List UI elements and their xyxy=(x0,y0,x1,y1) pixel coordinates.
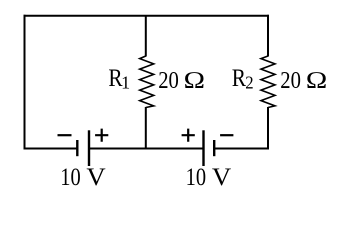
battery B1 tall plate (positive) xyxy=(88,130,90,166)
resistor R2 zigzag xyxy=(261,56,275,108)
svg-text:V: V xyxy=(212,163,232,191)
minus sign of battery B1 xyxy=(58,134,72,136)
plus sign of battery B2 xyxy=(182,129,195,142)
battery B1 short plate (negative) xyxy=(76,140,78,156)
battery B2 tall plate (positive) xyxy=(202,130,204,166)
wire: bottom edge left segment (left corner to battery 1) xyxy=(24,148,78,150)
svg-text:10: 10 xyxy=(60,163,80,190)
svg-text:Ω: Ω xyxy=(306,66,328,93)
wire: outer loop right edge top (to resistor R2) xyxy=(267,15,269,57)
wire: bottom edge right segment (battery 2 to right corner) xyxy=(214,148,269,150)
wire: bottom edge middle segment (battery 1 to battery 2) xyxy=(89,148,204,150)
resistor R1 zigzag xyxy=(140,56,154,108)
wire: outer loop left edge xyxy=(24,15,26,150)
svg-text:R: R xyxy=(232,64,247,92)
plus sign of battery B1 xyxy=(95,129,108,142)
svg-text:20: 20 xyxy=(158,67,179,94)
svg-text:2: 2 xyxy=(245,73,253,93)
minus sign of battery B2 xyxy=(220,134,233,136)
battery B2 short plate (negative) xyxy=(213,140,215,156)
svg-text:10: 10 xyxy=(186,163,206,190)
wire: middle branch top (top edge to resistor R1) xyxy=(145,16,147,57)
wire: outer loop right edge bottom (R2 to bottom) xyxy=(267,107,269,150)
svg-text:20: 20 xyxy=(280,67,301,94)
svg-text:Ω: Ω xyxy=(183,66,205,93)
svg-text:1: 1 xyxy=(121,73,130,93)
svg-text:V: V xyxy=(86,163,106,191)
wire: outer loop top edge xyxy=(24,15,270,17)
wire: middle branch bottom (R1 to bottom edge) xyxy=(145,107,147,150)
